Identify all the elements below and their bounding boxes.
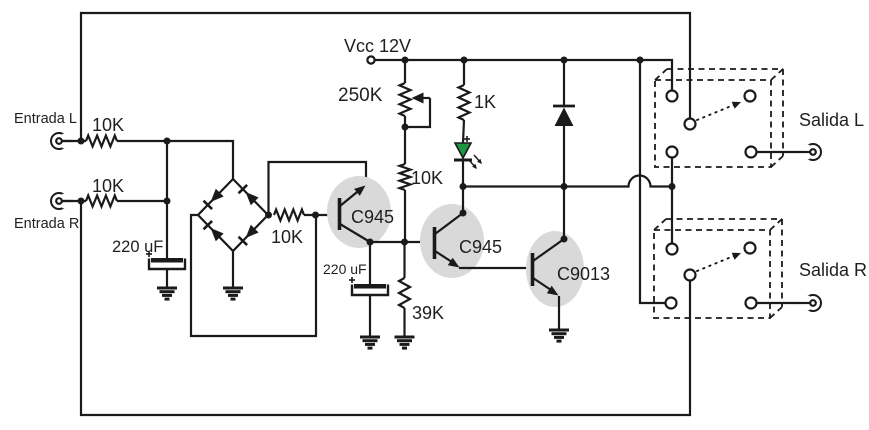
- resistor R2 10K (Entrada R): [86, 196, 117, 207]
- svg-text:C9013: C9013: [557, 264, 610, 284]
- label Vcc 12V: [344, 36, 411, 56]
- transistor Q3 base bar: [531, 253, 535, 286]
- relay RL1 throw contact NO: [745, 91, 756, 102]
- wire: RL2 output to Salida R jack: [757, 302, 811, 304]
- svg-text:Salida R: Salida R: [799, 260, 867, 280]
- wire: summing node down to C1: [166, 141, 168, 258]
- diode D4 (bottom-right arm): [238, 225, 258, 245]
- wire: R3 to Q1 base: [304, 214, 338, 216]
- resistor R4 10K (to Q2 base node): [400, 164, 411, 190]
- relay RL2 output contact: [746, 298, 757, 309]
- node: coil drive tee to both relays: [669, 183, 676, 190]
- wire: R2 to summing node: [117, 200, 167, 202]
- transistor Q2 collector limb: [435, 213, 463, 234]
- wire: R1 to bridge top feed: [117, 141, 233, 179]
- label R3 10K: [271, 227, 303, 247]
- svg-text:C945: C945: [351, 207, 394, 227]
- node: Vcc at 1K: [461, 57, 468, 64]
- ground (C1): [157, 288, 177, 299]
- transistor Q2 emitter limb with arrow: [435, 251, 460, 268]
- wire: C1 to ground: [166, 269, 168, 288]
- node: Q1 base junction: [312, 212, 319, 219]
- relay RL1 case (dashed): [655, 69, 783, 167]
- potentiometer RV1 wiper arrow and tie-down: [405, 93, 430, 128]
- node: cap C1 tap on L line: [164, 138, 171, 145]
- svg-text:Entrada L: Entrada L: [14, 111, 77, 127]
- diode D5 flyback: [553, 106, 575, 126]
- wire: divider junction to 39K: [403, 242, 405, 278]
- wire: LED cathode to coil-drive node: [462, 160, 464, 187]
- wire: Vcc feed down right side to relay R coil: [640, 60, 666, 303]
- label Entrada R: [14, 216, 79, 232]
- svg-text:220 uF: 220 uF: [323, 261, 367, 277]
- wire: Q2 emitter to Q3 base: [459, 267, 527, 269]
- node: Q1 collector junction: [367, 239, 374, 246]
- svg-text:10K: 10K: [411, 168, 443, 188]
- relay RL1 output contact: [746, 147, 757, 158]
- node: Entrada L junction: [78, 138, 85, 145]
- ground (Q3): [549, 330, 569, 341]
- node: Vcc at relay R feed: [637, 57, 644, 64]
- resistor R1 10K (Entrada L): [86, 136, 117, 147]
- wire: 250K element to wiper tie: [404, 116, 406, 127]
- resistor R5 39K: [399, 278, 410, 308]
- svg-text:10K: 10K: [92, 115, 124, 135]
- node: Vcc at D5: [561, 57, 568, 64]
- transistor Q1 collector limb: [340, 224, 370, 242]
- relay RL1 coil terminal B: [667, 147, 678, 158]
- connector: Vcc terminal: [367, 56, 374, 63]
- label Salida R: [799, 260, 867, 280]
- connector: Salida R RCA jack: [800, 295, 822, 311]
- transistor Q3 emitter limb with arrow: [533, 278, 559, 296]
- transistor Q2 base bar: [433, 227, 437, 259]
- connector: Salida L RCA jack: [800, 144, 822, 160]
- wire: Vcc to 250K: [404, 60, 406, 83]
- wire: bridge left corner loop to Q1 base node: [191, 215, 316, 336]
- LED D6 light arrows: [469, 155, 482, 169]
- resistor R6 1K: [459, 85, 470, 120]
- label R6 1K: [474, 92, 496, 112]
- transistor Q1 C945 body shade: [327, 176, 391, 248]
- capacitor C1 220uF: [146, 251, 185, 269]
- node: bridge right corner: [265, 212, 272, 219]
- label C2 220 uF: [323, 261, 367, 277]
- transistor Q1 base bar: [338, 198, 342, 230]
- relay RL2 throw contact NO: [745, 243, 756, 254]
- label Q1 C945: [351, 207, 394, 227]
- wire: Vcc rail: [375, 60, 672, 91]
- node: summing junction on cap line: [164, 198, 171, 205]
- wire: 1K to LED: [463, 120, 464, 143]
- wire: Entrada R node down left border and bottom run to relay R pole: [81, 201, 690, 415]
- svg-text:250K: 250K: [338, 85, 383, 106]
- label Entrada L: [14, 111, 77, 127]
- wire: C2 to ground: [369, 295, 371, 337]
- wire: coil drive line LED node to relays (hop over Vcc feed): [463, 176, 672, 187]
- node: LED to relay line: [460, 183, 467, 190]
- LED D6 plus mark: [464, 136, 470, 142]
- relay RL2 actuation arrow: [697, 253, 741, 271]
- node: RV1 tie-down junction: [402, 124, 409, 131]
- wire: Q3 collector riser to D5: [563, 126, 565, 239]
- ground (C2): [360, 337, 380, 348]
- diode D2 (top-right arm): [238, 185, 258, 205]
- svg-text:220 uF: 220 uF: [112, 238, 163, 256]
- relay RL2 case (dashed): [654, 219, 782, 318]
- node: Q2 collector elbow: [460, 210, 467, 217]
- wire: Entrada L jack to node: [62, 140, 86, 142]
- wire: bridge right corner up and over to Q1 emitter: [269, 162, 367, 215]
- diode bridge outline: [198, 179, 268, 251]
- relay RL1 actuation arrow: [697, 102, 741, 120]
- svg-text:Entrada R: Entrada R: [14, 216, 79, 232]
- relay RL2 coil terminal B (to Vcc): [666, 298, 677, 309]
- svg-text:Salida L: Salida L: [799, 110, 864, 130]
- connector: Entrada R RCA jack: [51, 193, 73, 209]
- wire: Vcc to D5 cathode: [563, 60, 565, 106]
- transistor Q1 emitter limb with arrow: [340, 186, 366, 207]
- wire: Entrada R jack to node: [62, 200, 86, 202]
- relay RL2 coil terminal A: [667, 244, 678, 255]
- wire: Vcc to 1K: [463, 60, 465, 85]
- label R5 39K: [412, 303, 444, 323]
- svg-text:10K: 10K: [271, 227, 303, 247]
- transistor Q3 C9013 body shade: [526, 231, 584, 307]
- svg-text:C945: C945: [459, 237, 502, 257]
- transistor Q2 C945 body shade: [420, 204, 484, 278]
- transistor Q3 collector limb: [533, 239, 564, 261]
- node: Entrada R junction: [78, 198, 85, 205]
- label Q3 C9013: [557, 264, 610, 284]
- wire: bridge bottom to ground: [232, 251, 234, 288]
- wire: Q1 collector down to C2: [369, 242, 371, 284]
- node: Vcc at 250K: [402, 57, 409, 64]
- wire: Q1 collector to Q2 base: [370, 241, 429, 243]
- svg-text:Vcc 12V: Vcc 12V: [344, 36, 411, 56]
- label R1 10K: [92, 115, 124, 135]
- wire: Entrada L node up left border and top run to relay L pole: [81, 13, 690, 141]
- relay RL1 pole contact: [685, 119, 696, 130]
- svg-text:39K: 39K: [412, 303, 444, 323]
- potentiometer RV1 250K element: [400, 83, 411, 116]
- label Q2 C945: [459, 237, 502, 257]
- wire: RL1 coil B down to drive node: [671, 158, 673, 187]
- node: divider junction at 39K top: [401, 239, 408, 246]
- ground (39K): [395, 337, 415, 348]
- svg-text:1K: 1K: [474, 92, 496, 112]
- wire: RL1 output to Salida L jack: [757, 151, 811, 153]
- label Salida L: [799, 110, 864, 130]
- resistor R3 10K (bridge to Q1 base): [274, 210, 304, 221]
- connector: Entrada L RCA jack: [51, 133, 73, 149]
- wire: 39K to ground: [403, 308, 405, 337]
- wire: Q2 collector riser: [462, 187, 464, 214]
- diode D1 (top-left arm): [203, 189, 223, 209]
- svg-text:10K: 10K: [92, 176, 124, 196]
- label R4 10K: [411, 168, 443, 188]
- label C1 220 uF: [112, 238, 163, 256]
- wire: relay R coil A up to drive node: [671, 187, 673, 244]
- node: relay line at Q3 collector: [561, 183, 568, 190]
- label RV1 250K: [338, 85, 383, 106]
- capacitor C2 220uF: [349, 277, 388, 295]
- wire: Q3 emitter to ground: [558, 296, 560, 330]
- wire: 250K to 10K: [404, 127, 406, 164]
- relay RL1 coil terminal A (to Vcc): [667, 91, 678, 102]
- diode D3 (bottom-left arm): [203, 221, 223, 241]
- relay RL2 pole contact: [685, 270, 696, 281]
- LED D6 green: [454, 143, 472, 160]
- ground (bridge): [223, 288, 243, 299]
- node: Q3 collector elbow: [561, 236, 568, 243]
- label R2 10K: [92, 176, 124, 196]
- wire: R4 to divider junction: [404, 190, 406, 242]
